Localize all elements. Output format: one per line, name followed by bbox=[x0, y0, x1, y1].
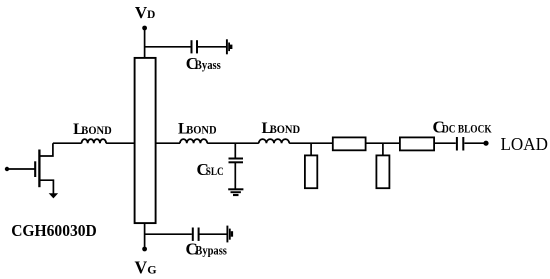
svg-text:BOND: BOND bbox=[270, 124, 300, 136]
svg-text:DC BLOCK: DC BLOCK bbox=[442, 123, 492, 136]
svg-text:Byass: Byass bbox=[195, 57, 221, 72]
svg-text:D: D bbox=[147, 9, 155, 21]
svg-text:BOND: BOND bbox=[186, 124, 216, 136]
svg-text:Bypass: Bypass bbox=[195, 243, 227, 258]
svg-text:CGH60030D: CGH60030D bbox=[11, 221, 97, 240]
svg-text:LOAD: LOAD bbox=[501, 134, 548, 154]
svg-text:G: G bbox=[147, 262, 156, 276]
svg-text:V: V bbox=[135, 257, 148, 277]
svg-text:SLC: SLC bbox=[206, 165, 224, 178]
svg-text:BOND: BOND bbox=[81, 125, 111, 137]
svg-text:V: V bbox=[135, 3, 148, 22]
